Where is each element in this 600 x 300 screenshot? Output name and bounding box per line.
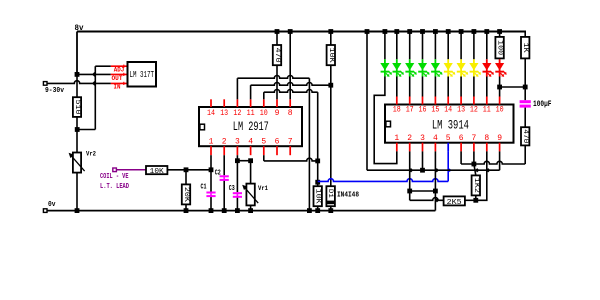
svg-text:4: 4: [248, 137, 253, 146]
wire pin9 down to V+ line: [499, 151, 501, 170]
svg-text:4: 4: [433, 134, 438, 143]
node junction pin2/link: [407, 189, 412, 194]
node junction 8v/OUT/510: [75, 72, 80, 77]
svg-text:1K2: 1K2: [472, 178, 480, 193]
wire pin11 line right to 10K column: [251, 82, 331, 85]
svg-text:Vr2: Vr2: [86, 151, 96, 158]
wire ADJ route horizontal to junction: [77, 129, 95, 131]
svg-text:OUT: OUT: [112, 75, 123, 82]
capacitor C2: [220, 175, 229, 177]
preset VR1 arrow: [244, 187, 258, 203]
IC U2 notch: [200, 124, 205, 130]
terminal 0v: [43, 209, 47, 213]
resistor 470 charge pump: [273, 45, 281, 65]
svg-text:LM 317T: LM 317T: [129, 70, 154, 80]
wire rail to LED6: [447, 32, 449, 60]
wire pin10 line right: [264, 89, 318, 92]
wire link pin2-pin4: [410, 190, 436, 192]
wire ADJ line to LM317: [95, 65, 111, 67]
node junction rail/LED1: [383, 29, 388, 34]
svg-text:100µF: 100µF: [533, 99, 552, 109]
capacitor C3: [233, 192, 242, 194]
wire 0v ground rail: [47, 210, 435, 212]
pin stubs LM2917 bottom: [210, 146, 212, 155]
wire D1 to 0v: [330, 206, 332, 210]
svg-text:8: 8: [484, 134, 489, 143]
wire 2K5 to ref node: [465, 199, 476, 201]
wire rail to LED1: [384, 32, 386, 60]
wire 8v supply rail: [77, 31, 525, 33]
wire V+ line to pin3 and pin9: [367, 169, 500, 171]
resistor 10K bias: [327, 45, 335, 65]
node junction C3/0v: [235, 208, 240, 213]
wire 20K down: [185, 170, 187, 185]
wire pin11 up: [250, 85, 252, 99]
wire pin3 down: [236, 155, 238, 161]
wire junction to pin 1 of LM2917: [186, 169, 211, 171]
svg-text:14: 14: [444, 105, 452, 114]
node junction rail/pin8: [288, 29, 293, 34]
resistor 20K: [182, 184, 190, 204]
node junction rail/470: [275, 29, 280, 34]
resistor 470 right: [521, 127, 529, 145]
resistor 1K: [521, 37, 529, 59]
wire pin2 corner down: [409, 191, 411, 200]
svg-text:COIL - VE: COIL - VE: [100, 173, 129, 181]
svg-text:11: 11: [247, 109, 255, 118]
preset VR2 arrow: [71, 155, 85, 171]
node junction pin5/pin10/10K: [315, 159, 320, 164]
svg-text:IN: IN: [114, 83, 121, 90]
wire V+ crossover jogs: [409, 168, 413, 172]
LED D7 yellow: [447, 59, 449, 76]
wire V+ supply route from rail down left side: [366, 32, 368, 171]
wire junction down to R 510: [76, 74, 78, 97]
wire pin10 column down: [317, 92, 319, 161]
svg-text:10K: 10K: [314, 189, 322, 205]
LED D5 green: [422, 59, 424, 76]
svg-text:2K5: 2K5: [447, 199, 463, 207]
svg-text:2: 2: [222, 137, 227, 146]
capacitor C1: [206, 192, 215, 194]
node junction pin11/10K/D1: [328, 83, 333, 88]
svg-text:510: 510: [73, 100, 81, 115]
node junction 10K/20K/pin1: [184, 167, 189, 172]
svg-text:1: 1: [394, 134, 399, 143]
wire pin2 to C2: [223, 155, 225, 175]
pin stubs LM3914 bottom: [396, 143, 398, 152]
wire 10K bias from rail: [330, 32, 332, 46]
wire pin12 line right: [237, 75, 309, 78]
LED D8 yellow: [460, 59, 462, 76]
wire C1 to 0v: [210, 197, 212, 211]
svg-text:470: 470: [521, 129, 529, 143]
wire blue up to pin5: [447, 151, 449, 181]
svg-text:D1: D1: [327, 189, 334, 198]
preset VR2 body: [73, 153, 81, 173]
svg-text:2: 2: [407, 134, 412, 143]
wire blue signal LM2917 to LM3914 pin5: [318, 179, 449, 182]
regulator U1 LM317T body: [128, 62, 157, 87]
LED D6 green: [434, 59, 436, 76]
wire pin7 down to 1K2: [473, 151, 475, 164]
node junction 20K/0v: [184, 208, 189, 213]
svg-text:Vr1: Vr1: [258, 185, 268, 192]
svg-text:12: 12: [470, 105, 478, 114]
wire rail to LED3: [409, 32, 411, 60]
resistor 10K pulldown: [314, 186, 322, 206]
LED D4 green: [409, 59, 411, 76]
wire 20K to 0v: [185, 204, 187, 210]
svg-text:IN4I48: IN4I48: [337, 192, 359, 200]
node junction pin7/ref line: [472, 162, 477, 167]
node junction rail/LED4: [420, 29, 425, 34]
node junction rail/V+ route: [365, 29, 370, 34]
wire 10K to 20K junction: [167, 169, 186, 171]
wire pin5 to 10K/pin10 node: [264, 158, 318, 161]
resistor 100 on pin10 column: [495, 37, 503, 59]
svg-text:10K: 10K: [150, 168, 165, 176]
svg-text:C3: C3: [229, 185, 235, 193]
wire ref node to pin8: [476, 151, 487, 200]
svg-text:20K: 20K: [182, 187, 190, 203]
wire rail to LED8: [473, 32, 475, 60]
svg-text:12: 12: [233, 109, 241, 118]
wire 10K to pin11 node and diode: [330, 65, 332, 186]
node junction LED10/pin10: [497, 85, 502, 90]
wire rail to LED7: [460, 32, 462, 60]
wires LED cathodes to pins 18-10: [396, 77, 398, 97]
wire ADJ junction down to VR2: [76, 130, 78, 153]
wire pin12 column down to 0v: [308, 78, 310, 210]
node junction rail/LED5: [433, 29, 438, 34]
node junction 10K/0v: [315, 208, 320, 213]
wire rail to LED4: [422, 32, 424, 60]
svg-text:C1: C1: [201, 184, 207, 192]
wire red ADJ pin segment: [111, 65, 128, 67]
wire C3 to 0v: [236, 198, 238, 211]
wire VR2 to 0v rail: [76, 173, 78, 211]
svg-text:100: 100: [496, 40, 504, 55]
wire pin3 junction to C3: [236, 161, 238, 193]
wire 9-30v input to LM317 IN: [47, 81, 111, 84]
wire pins6-7 line: [460, 151, 462, 164]
pin stubs LM3914 top: [396, 97, 398, 105]
svg-text:16: 16: [419, 105, 427, 114]
wire pin2 down: [409, 151, 411, 191]
capacitor 100uF: [520, 100, 531, 103]
node junction rail/LED3: [407, 29, 412, 34]
diode D1 IN4148 body: [326, 186, 335, 206]
svg-text:9-30v: 9-30v: [45, 87, 65, 95]
wire rail to LED2: [396, 32, 398, 60]
node junction rail/LED2: [394, 29, 399, 34]
node junction 510/ADJ/VR2: [75, 127, 80, 132]
resistor 10K input: [146, 166, 167, 174]
wire rail to LED9: [486, 32, 488, 60]
terminal 9-30v input: [43, 82, 47, 86]
node junction pin3/V+: [420, 168, 425, 173]
wire pin4 junction to VR1: [250, 161, 252, 184]
svg-text:10: 10: [496, 105, 504, 114]
svg-text:10: 10: [260, 109, 268, 118]
svg-text:10K: 10K: [327, 48, 335, 64]
wire red IN pin segment: [111, 82, 128, 84]
wire 10K pulldown top: [317, 161, 319, 186]
wire pin8 to rail: [289, 32, 291, 100]
wire coil lead purple: [116, 169, 146, 171]
pin stubs LM2917 top: [210, 99, 212, 107]
svg-text:LM 2917: LM 2917: [233, 120, 269, 134]
wire 1K to cap node: [524, 58, 526, 100]
svg-text:C2: C2: [215, 169, 221, 177]
svg-text:470: 470: [273, 48, 281, 63]
pin tick IN: [123, 82, 125, 85]
wire rail to LED10: [499, 32, 501, 37]
pin tick ADJ: [123, 65, 125, 68]
wire C2 to 0v: [223, 181, 225, 211]
wire red OUT pin segment: [111, 73, 128, 75]
node junction C1/0v: [209, 208, 214, 213]
node junction pin4/link: [433, 189, 438, 194]
node junction pin4 link: [248, 158, 253, 163]
svg-text:1K: 1K: [521, 43, 529, 54]
svg-text:5: 5: [446, 134, 451, 143]
wire ADJ route vertical with crossover jogs: [94, 66, 96, 129]
wire 470 to pin9: [276, 65, 278, 99]
wire pin4 down to ground end: [434, 151, 436, 210]
IC U2 LM2917 body: [199, 107, 302, 146]
node junction rail/LED6: [446, 29, 451, 34]
svg-text:7: 7: [288, 137, 293, 146]
wire 510 to ADJ junction: [76, 117, 78, 130]
node junction C2/0v: [222, 208, 227, 213]
node junction rail/10K: [328, 29, 333, 34]
svg-text:13: 13: [457, 105, 465, 114]
wire LED1 route around left side to pin1: [374, 77, 397, 164]
wire pin1 to C1: [210, 155, 212, 191]
svg-text:7: 7: [471, 134, 476, 143]
svg-text:LM 3914: LM 3914: [432, 118, 469, 132]
svg-text:L.T. LEAD: L.T. LEAD: [100, 183, 129, 191]
IC U3 LM3914 body: [385, 105, 514, 143]
node junction VR2/0v rail: [75, 208, 80, 213]
preset VR1 body: [246, 184, 254, 206]
wire left vertical from 8v rail to junction: [76, 32, 78, 75]
LED D11 red: [499, 59, 501, 76]
svg-text:18: 18: [393, 105, 401, 114]
svg-text:3: 3: [235, 137, 240, 146]
node junction D1/0v: [328, 208, 333, 213]
wire 1K2 to ref node: [475, 195, 477, 200]
wire pin3 down to V+ line: [422, 151, 424, 170]
pin tick OUT: [123, 73, 125, 76]
terminal coil input: [113, 168, 117, 172]
svg-text:6: 6: [459, 134, 464, 143]
svg-text:15: 15: [431, 105, 439, 114]
wire pin2 corner to 2K5: [410, 198, 444, 201]
svg-text:17: 17: [406, 105, 414, 114]
node junction rail/LED7: [459, 29, 464, 34]
node junction VR1/0v: [248, 208, 253, 213]
node junction pin1/C1: [209, 167, 214, 172]
wire pin12 up: [236, 78, 238, 99]
svg-text:ADJ: ADJ: [114, 67, 125, 74]
node junction rail/LED10: [497, 29, 502, 34]
LED D3 green: [396, 59, 398, 76]
svg-text:9: 9: [275, 109, 280, 118]
wire VR1 to 0v: [250, 205, 252, 210]
svg-text:6: 6: [275, 137, 280, 146]
LED D2 green: [384, 59, 386, 76]
svg-text:5: 5: [261, 137, 266, 146]
svg-text:3: 3: [420, 134, 425, 143]
node junction pin3/pin4 link: [235, 158, 240, 163]
svg-text:11: 11: [483, 105, 491, 114]
resistor 2K5: [444, 196, 465, 205]
svg-text:9: 9: [497, 134, 502, 143]
svg-text:13: 13: [220, 109, 228, 118]
IC U3 notch: [386, 121, 391, 127]
wire 470 feed from rail: [276, 32, 278, 46]
wire 8v rail corner down to 1K: [524, 31, 526, 37]
wire pin10 up: [263, 92, 265, 99]
LED D9 yellow: [473, 59, 475, 76]
wire OUT line from junction to LM317: [77, 73, 111, 75]
wire 100uF to 470: [524, 108, 526, 128]
wire pin5 down: [263, 155, 265, 161]
svg-text:0v: 0v: [48, 201, 56, 209]
wire 10K pulldown to 0v: [317, 206, 319, 210]
node junction 10K pulldown/blue signal: [315, 180, 320, 185]
node junction pin12 wire/0v: [307, 208, 312, 213]
svg-text:14: 14: [207, 109, 215, 118]
wire pin3-pin4 link: [237, 160, 250, 162]
node junction 1K/100uF: [523, 85, 528, 90]
svg-text:8: 8: [288, 109, 293, 118]
node junction rail/LED8: [472, 29, 477, 34]
resistor 1K2: [472, 175, 480, 195]
node junction rail/LED9: [484, 29, 489, 34]
node junction 2K5/1K2/pin8: [473, 198, 478, 203]
resistor 510: [73, 97, 81, 117]
wire pin10 node to cap node link: [500, 86, 526, 88]
svg-text:1: 1: [209, 137, 214, 146]
wire rail to LED5: [434, 32, 436, 60]
LED D10 red: [486, 59, 488, 76]
